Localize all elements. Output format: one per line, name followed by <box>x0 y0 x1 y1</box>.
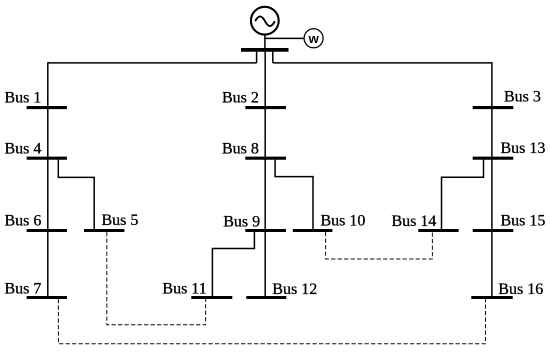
wire main bus right drop <box>272 51 274 63</box>
tie switch Bus10 to Bus14 (dashed) <box>326 232 433 259</box>
bus bar Bus 11 <box>191 296 232 299</box>
svg-text:Bus 13: Bus 13 <box>501 140 546 157</box>
svg-text:Bus 2: Bus 2 <box>222 90 259 107</box>
svg-text:Bus 12: Bus 12 <box>272 281 317 298</box>
wire source down to main bus <box>264 34 266 50</box>
bus bar Bus 16 <box>471 296 512 299</box>
tie switch Bus7 to Bus16 (dashed) <box>58 299 485 344</box>
svg-text:Bus 7: Bus 7 <box>5 280 42 297</box>
wire Bus9 to Bus11 branch <box>212 232 254 297</box>
bus bar Bus 13 <box>473 157 514 160</box>
svg-text:Bus 1: Bus 1 <box>5 89 42 106</box>
wire Bus8 to Bus10 branch <box>275 160 313 230</box>
svg-text:Bus 14: Bus 14 <box>392 213 437 230</box>
wattmeter W <box>304 29 323 48</box>
bus bar Bus 2 <box>245 106 286 109</box>
wire left feeder <box>47 62 49 298</box>
svg-text:Bus 4: Bus 4 <box>5 140 42 157</box>
wire Bus13 to Bus14 branch <box>442 160 484 230</box>
svg-text:Bus 9: Bus 9 <box>223 213 260 230</box>
wire Bus4 to Bus5 branch <box>58 160 94 230</box>
svg-text:Bus 8: Bus 8 <box>222 140 259 157</box>
bus bar Bus 6 <box>27 229 67 232</box>
svg-text:Bus 10: Bus 10 <box>321 213 366 230</box>
wire top horizontal right <box>273 62 492 64</box>
svg-text:Bus 16: Bus 16 <box>498 281 543 298</box>
bus bar Bus 9 <box>245 229 286 232</box>
wire source to wattmeter <box>265 37 305 39</box>
bus bar Bus 14 <box>418 229 458 232</box>
source generator G <box>251 7 279 35</box>
bus bar Bus 10 <box>293 229 333 232</box>
wire main bus left drop <box>256 51 258 63</box>
svg-text:Bus 15: Bus 15 <box>501 213 546 230</box>
bus bar Bus 3 <box>473 106 514 109</box>
bus bar Bus 7 <box>27 296 67 299</box>
svg-text:Bus 11: Bus 11 <box>162 280 206 297</box>
wire top horizontal left <box>48 62 257 64</box>
bus bar Bus 12 <box>246 296 286 299</box>
bus bar Bus 1 <box>27 106 67 109</box>
svg-text:Bus 3: Bus 3 <box>504 89 541 106</box>
tie switch Bus5 to Bus11 (dashed) <box>107 232 206 325</box>
svg-text:w: w <box>308 31 320 46</box>
wire center feeder <box>264 50 266 299</box>
wire right feeder <box>491 62 493 298</box>
bus bar Bus 4 <box>27 157 67 160</box>
bus bar Bus 15 <box>473 229 514 232</box>
main bus bar <box>241 48 289 52</box>
svg-text:Bus 5: Bus 5 <box>102 212 139 229</box>
bus bar Bus 8 <box>245 157 286 160</box>
svg-text:Bus 6: Bus 6 <box>5 212 42 229</box>
bus bar Bus 5 <box>84 229 124 232</box>
